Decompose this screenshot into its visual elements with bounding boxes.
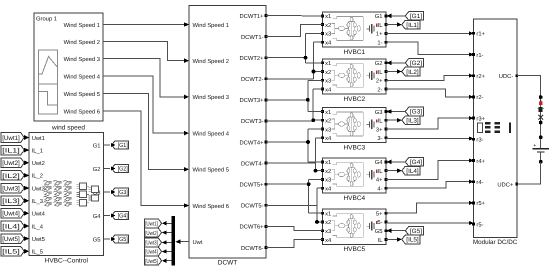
- svg-text:IL_2: IL_2: [32, 173, 43, 180]
- wire DCWT3+ to HVBC2 x3 and HVBC3 x1: [266, 80, 323, 111]
- goto tag [G2]: [112, 164, 129, 172]
- svg-text:DCWT1+: DCWT1+: [240, 13, 265, 20]
- svg-text:2-: 2-: [377, 86, 382, 93]
- svg-text:HVBC2: HVBC2: [343, 96, 365, 103]
- wire demux to [Uwt3]: [162, 240, 172, 244]
- svg-text:[G4]: [G4]: [118, 213, 128, 220]
- svg-text:UDC+: UDC+: [497, 181, 514, 188]
- svg-text:G2: G2: [375, 60, 383, 67]
- svg-text:[Uwt2]: [Uwt2]: [2, 160, 20, 167]
- svg-text:4+: 4+: [376, 178, 383, 184]
- converter block HVBC1: [321, 12, 387, 47]
- svg-text:DCWT6-: DCWT6-: [241, 245, 264, 252]
- svg-text:x2: x2: [325, 168, 331, 175]
- junction on DCWT4+ net: [306, 140, 310, 144]
- wire DCWT2+ to HVBC1 x3 and HVBC2 x1: [266, 33, 323, 62]
- svg-text:4-: 4-: [377, 187, 382, 193]
- svg-text:DCWT1-: DCWT1-: [241, 34, 264, 41]
- wire HVBC1 IL to [IL1]: [386, 22, 402, 27]
- wire DCWT6+ to HVBC5 x3: [266, 226, 323, 230]
- wire demux to [Uwt4]: [162, 249, 172, 253]
- label HVBC5: [343, 246, 365, 253]
- node below DC source: [539, 160, 543, 164]
- svg-text:x2: x2: [325, 219, 331, 226]
- wire DCWT1+ to HVBC1 x1: [266, 15, 323, 17]
- from tag [IL4]: [1, 221, 24, 231]
- wire [Uwt2] to HVBC--Control: [24, 161, 29, 166]
- wire [G2] to HVBC2 gate input: [387, 61, 406, 66]
- svg-text:[G4]: [G4]: [410, 159, 422, 166]
- svg-text:DCWT3-: DCWT3-: [241, 118, 264, 125]
- svg-text:Wind Speed 3: Wind Speed 3: [193, 94, 229, 101]
- from tag [IL3]: [1, 196, 24, 206]
- junction on DCWT3- net: [311, 118, 315, 122]
- goto tag [G3]: [112, 188, 129, 196]
- svg-text:[Uwt5]: [Uwt5]: [2, 236, 20, 243]
- wire DC source to UDC+: [517, 162, 541, 184]
- svg-text:[Uwt3]: [Uwt3]: [145, 240, 158, 247]
- svg-text:DCWT4+: DCWT4+: [240, 139, 265, 146]
- wire demux to [Uwt1]: [162, 221, 172, 225]
- controller icon cluster inside HVBC--Control: [44, 180, 99, 206]
- svg-text:[G2]: [G2]: [410, 60, 422, 67]
- svg-text:r2+: r2+: [476, 73, 485, 80]
- svg-text:5+: 5+: [376, 212, 383, 218]
- svg-text:[G5]: [G5]: [118, 236, 128, 243]
- wire DCWT2- to HVBC1 x4 and HVBC2 x2: [266, 42, 323, 79]
- svg-text:x3: x3: [325, 31, 331, 38]
- wire Wind Speed 2 (wind speed to DCWT): [103, 42, 189, 64]
- svg-text:Wind Speed 2: Wind Speed 2: [64, 39, 100, 46]
- svg-text:1-: 1-: [377, 40, 382, 46]
- svg-text:x2: x2: [325, 22, 331, 29]
- svg-text:G2: G2: [93, 166, 101, 173]
- from tag [Uwt1]: [1, 133, 24, 143]
- from tag [G3] at HVBC3: [405, 107, 423, 116]
- svg-text:x4: x4: [325, 87, 332, 93]
- svg-text:[G5]: [G5]: [410, 228, 422, 235]
- wire [IL4] to HVBC--Control: [24, 224, 29, 229]
- svg-text:x4: x4: [325, 238, 332, 244]
- converter icon inside HVBC4: [331, 162, 377, 186]
- svg-text:Wind Speed 4: Wind Speed 4: [193, 130, 230, 137]
- from tag [Uwt2]: [1, 158, 24, 168]
- wire HVBC2 IL to [IL2]: [386, 69, 402, 74]
- converter block HVBC2: [321, 59, 387, 94]
- svg-text:Wind Speed 1: Wind Speed 1: [193, 22, 229, 29]
- wire DCWT5- to HVBC4 x4 and HVBC5 x2: [266, 188, 323, 222]
- signal builder icon inside wind speed block: [38, 50, 57, 114]
- goto tag [Uwt3]: [145, 238, 162, 247]
- wire [IL1] to HVBC--Control: [24, 148, 29, 153]
- subsystem block wind speed (signal source): [34, 13, 103, 121]
- wire HVBC3 IL to [IL3]: [386, 118, 402, 123]
- svg-text:IL: IL: [378, 23, 384, 29]
- svg-text:r5-: r5-: [476, 222, 483, 228]
- svg-text:[Uwt4]: [Uwt4]: [2, 211, 20, 218]
- wire [Uwt1] to HVBC--Control: [24, 135, 29, 140]
- breaker element on load branch: [538, 107, 544, 112]
- subsystem block HVBC--Control: [29, 133, 103, 256]
- converter icon inside HVBC1: [331, 16, 377, 40]
- wire HVBC4 IL to [IL4]: [386, 168, 402, 173]
- wire [Uwt3] to HVBC--Control: [24, 186, 29, 191]
- svg-text:[IL3]: [IL3]: [406, 118, 419, 125]
- goto tag [IL4] at HVBC4: [402, 166, 420, 175]
- svg-text:5-: 5-: [377, 220, 382, 226]
- svg-text:IL: IL: [378, 169, 384, 175]
- svg-text:IL: IL: [378, 119, 384, 125]
- svg-text:G5: G5: [375, 228, 383, 235]
- wire demux to [Uwt2]: [162, 231, 172, 235]
- wire HVBC5 IL to [IL5]: [386, 237, 402, 242]
- svg-text:[G2]: [G2]: [118, 166, 128, 173]
- node on load branch (top): [539, 95, 543, 99]
- converter icon inside HVBC3: [331, 112, 377, 136]
- label HVBC--Control: [45, 257, 89, 264]
- junction on DCWT3+ net: [306, 98, 310, 102]
- goto tag [Uwt4]: [145, 247, 162, 256]
- svg-text:DCWT5+: DCWT5+: [240, 182, 265, 189]
- svg-text:3+: 3+: [376, 126, 383, 133]
- wire [IL2] to HVBC--Control: [24, 173, 29, 178]
- svg-text:G4: G4: [93, 213, 102, 220]
- converter icon inside HVBC5: [331, 214, 377, 238]
- svg-text:G1: G1: [93, 142, 101, 149]
- svg-text:[Uwt4]: [Uwt4]: [145, 249, 158, 256]
- current measurement (red) on load branch: [539, 100, 543, 105]
- goto tag [Uwt1]: [145, 219, 162, 228]
- svg-text:HVBC5: HVBC5: [343, 246, 365, 253]
- subsystem block DCWT: [189, 6, 267, 258]
- from tag [IL1]: [1, 145, 24, 155]
- wire Wind Speed 1 (wind speed to DCWT): [103, 22, 189, 27]
- junction on DCWT5+ net: [307, 182, 311, 186]
- svg-text:[IL4]: [IL4]: [2, 223, 20, 230]
- svg-text:Group 1: Group 1: [36, 16, 57, 23]
- svg-text:x2: x2: [325, 69, 331, 76]
- wire [Uwt4] to HVBC--Control: [24, 211, 29, 216]
- svg-text:Uwt: Uwt: [193, 240, 203, 246]
- wire [IL5] to HVBC--Control: [24, 249, 29, 254]
- svg-text:IL_4: IL_4: [32, 224, 44, 230]
- svg-text:[IL2]: [IL2]: [2, 173, 20, 180]
- svg-text:x3: x3: [325, 228, 331, 235]
- wire [G4] to HVBC4 gate input: [387, 160, 406, 165]
- svg-text:r3+: r3+: [476, 115, 485, 122]
- wire [G3] to HVBC3 gate input: [387, 109, 406, 114]
- wire UDC- to load branch: [517, 76, 541, 149]
- goto tag [G4]: [112, 211, 129, 219]
- svg-text:IL_5: IL_5: [32, 250, 43, 256]
- wire DCWT4+ to HVBC3 x3 and HVBC4 x1: [266, 129, 323, 162]
- svg-text:Wind Speed 6: Wind Speed 6: [193, 203, 229, 210]
- svg-text:x4: x4: [325, 40, 332, 46]
- svg-text:[G3]: [G3]: [118, 189, 128, 196]
- svg-text:r3-: r3-: [476, 137, 483, 144]
- goto tag [IL1] at HVBC1: [402, 20, 420, 29]
- wire HVBC 4+ to Modular DC/DC r4+: [386, 158, 473, 179]
- wire Wind Speed 3 (wind speed to DCWT): [103, 59, 189, 100]
- svg-text:r4+: r4+: [476, 159, 485, 165]
- series RLC element (asterisk) on load branch: [538, 114, 543, 121]
- svg-text:Wind Speed 6: Wind Speed 6: [64, 108, 100, 115]
- svg-text:HVBC--Control: HVBC--Control: [45, 257, 89, 264]
- from tag [IL5]: [1, 247, 24, 257]
- svg-text:[G1]: [G1]: [410, 13, 422, 20]
- svg-text:DCWT4-: DCWT4-: [241, 160, 264, 167]
- wire HVBC 2+ to Modular DC/DC r2+: [386, 74, 473, 81]
- subsystem block Modular DC/DC: [472, 19, 518, 238]
- wire DCWT6- to HVBC5 x4: [266, 239, 323, 247]
- from tag [Uwt5]: [1, 234, 24, 244]
- svg-text:x4: x4: [325, 136, 332, 142]
- converter block HVBC4: [321, 158, 387, 193]
- svg-text:Wind Speed 3: Wind Speed 3: [64, 56, 100, 63]
- wire HVBC 3- to Modular DC/DC r3-: [386, 136, 473, 140]
- svg-text:IL: IL: [378, 238, 384, 244]
- svg-text:[IL1]: [IL1]: [406, 22, 419, 29]
- svg-text:[IL2]: [IL2]: [406, 69, 419, 76]
- svg-text:Modular DC/DC: Modular DC/DC: [473, 239, 518, 246]
- from tag [Uwt3]: [1, 183, 24, 193]
- goto tag [IL3] at HVBC3: [402, 116, 420, 125]
- svg-text:G3: G3: [375, 109, 383, 116]
- svg-text:x1: x1: [325, 61, 331, 67]
- svg-text:[IL4]: [IL4]: [406, 168, 419, 175]
- from tag [Uwt4]: [1, 209, 24, 219]
- wire DCWT3- to HVBC2 x4 and HVBC3 x2: [266, 89, 323, 121]
- wire Wind Speed 4 (wind speed to DCWT): [103, 76, 189, 135]
- svg-text:Uwt5: Uwt5: [32, 237, 45, 243]
- svg-text:Uwt4: Uwt4: [32, 212, 46, 218]
- svg-text:HVBC4: HVBC4: [343, 195, 365, 202]
- icon cluster inside Modular DC/DC: [477, 122, 511, 133]
- wire [G5] to HVBC5 gate input: [387, 228, 406, 233]
- svg-text:r1-: r1-: [476, 53, 483, 59]
- svg-text:x1: x1: [325, 110, 331, 116]
- svg-text:+: +: [533, 143, 536, 149]
- label HVBC2: [343, 96, 365, 103]
- wire HVBC 3+ to Modular DC/DC r3+: [386, 116, 473, 129]
- svg-text:Wind Speed 5: Wind Speed 5: [193, 167, 229, 174]
- svg-text:Wind Speed 5: Wind Speed 5: [64, 91, 100, 98]
- converter block HVBC5: [321, 209, 387, 244]
- svg-text:G5: G5: [93, 236, 101, 243]
- svg-text:x1: x1: [325, 212, 331, 218]
- svg-text:1+: 1+: [376, 32, 383, 38]
- goto tag [IL5] at HVBC5: [402, 235, 420, 244]
- wire G3 to [G3]: [104, 190, 116, 194]
- junction on DCWT5- net: [315, 220, 319, 224]
- wire G4 to [G4]: [104, 213, 116, 217]
- svg-text:Wind Speed 1: Wind Speed 1: [64, 22, 100, 29]
- label Modular DC/DC: [473, 239, 518, 246]
- svg-text:wind speed: wind speed: [51, 125, 85, 132]
- svg-text:Uwt3: Uwt3: [32, 185, 45, 192]
- wire G1 to [G1]: [104, 143, 116, 147]
- svg-text:3-: 3-: [377, 135, 382, 142]
- svg-text:x3: x3: [325, 177, 331, 184]
- wire HVBC 5+ to Modular DC/DC r5+: [386, 201, 473, 213]
- label HVBC3: [343, 145, 365, 152]
- svg-text:DCWT3+: DCWT3+: [240, 97, 265, 104]
- svg-text:[G1]: [G1]: [118, 142, 128, 149]
- goto tag [Uwt5]: [145, 256, 162, 265]
- goto tag [IL2] at HVBC2: [402, 67, 420, 76]
- svg-text:[IL3]: [IL3]: [2, 198, 20, 205]
- goto tag [G1]: [112, 141, 129, 149]
- wire DCWT1- to HVBC1 x2: [266, 25, 323, 37]
- svg-text:IL: IL: [378, 70, 384, 76]
- DC voltage source (battery): [532, 143, 549, 162]
- wire [Uwt5] to HVBC--Control: [24, 236, 29, 241]
- wire [IL3] to HVBC--Control: [24, 198, 29, 203]
- wire Uwt (DCWT output to demux): [175, 239, 189, 244]
- svg-text:x2: x2: [325, 118, 331, 125]
- svg-text:[Uwt2]: [Uwt2]: [145, 230, 158, 237]
- svg-text:[Uwt1]: [Uwt1]: [145, 221, 158, 228]
- svg-text:DCWT5-: DCWT5-: [241, 203, 264, 210]
- svg-text:[IL5]: [IL5]: [2, 249, 20, 256]
- svg-text:Uwt2: Uwt2: [32, 160, 45, 167]
- svg-text:G1: G1: [375, 13, 383, 20]
- svg-text:[IL1]: [IL1]: [2, 148, 20, 155]
- wire demux to [Uwt5]: [162, 259, 172, 263]
- svg-text:r4-: r4-: [476, 180, 483, 186]
- wire G5 to [G5]: [104, 237, 116, 241]
- converter block HVBC3: [321, 108, 387, 143]
- svg-text:x3: x3: [325, 126, 331, 133]
- wire Wind Speed 5 (wind speed to DCWT): [103, 94, 189, 172]
- from tag [G5] at HVBC5: [405, 226, 423, 235]
- demux (black bar): [172, 216, 175, 266]
- svg-text:[Uwt5]: [Uwt5]: [145, 258, 158, 265]
- svg-text:[IL5]: [IL5]: [406, 237, 419, 244]
- label HVBC4: [343, 195, 365, 202]
- svg-text:DCWT2+: DCWT2+: [240, 55, 265, 62]
- svg-text:x1: x1: [325, 14, 331, 20]
- svg-text:x1: x1: [325, 160, 331, 166]
- svg-text:Wind Speed 2: Wind Speed 2: [193, 58, 229, 65]
- goto tag [Uwt2]: [145, 228, 162, 237]
- svg-text:UDC-: UDC-: [499, 73, 514, 80]
- label wind speed: [51, 125, 85, 132]
- svg-text:Wind Speed 4: Wind Speed 4: [64, 73, 101, 80]
- svg-text:r5+: r5+: [476, 201, 485, 207]
- goto tag [G5]: [112, 235, 129, 243]
- wire DCWT5+ to HVBC4 x3 and HVBC5 x1: [266, 179, 323, 213]
- svg-text:HVBC1: HVBC1: [343, 49, 365, 56]
- svg-text:r1+: r1+: [476, 32, 485, 38]
- svg-text:[Uwt3]: [Uwt3]: [2, 186, 20, 193]
- wire HVBC 1+ to Modular DC/DC r1+: [386, 31, 473, 35]
- svg-text:r2-: r2-: [476, 94, 483, 101]
- wire HVBC 5- to Modular DC/DC r5-: [386, 221, 473, 225]
- svg-text:G4: G4: [375, 159, 384, 166]
- node on load branch (below RLC): [539, 121, 543, 125]
- svg-text:DCWT6+: DCWT6+: [240, 224, 265, 231]
- wire Wind Speed 6 (wind speed to DCWT): [103, 111, 189, 208]
- svg-text:IL_1: IL_1: [32, 148, 43, 154]
- from tag [G4] at HVBC4: [405, 158, 423, 167]
- svg-text:DCWT2-: DCWT2-: [241, 76, 264, 83]
- junction on DCWT4- net: [314, 169, 318, 173]
- wire [G1] to HVBC1 gate input: [387, 14, 406, 19]
- from tag [G2] at HVBC2: [405, 59, 423, 68]
- svg-text:HVBC3: HVBC3: [343, 145, 365, 152]
- svg-text:x3: x3: [325, 78, 331, 85]
- wire HVBC 4- to Modular DC/DC r4-: [386, 180, 473, 189]
- junction on DCWT2+ net: [304, 56, 308, 60]
- from tag [IL2]: [1, 171, 24, 181]
- svg-text:Uwt1: Uwt1: [32, 136, 45, 142]
- label HVBC1: [343, 49, 365, 56]
- svg-text:x4: x4: [325, 187, 332, 193]
- node above DC source: [539, 135, 543, 139]
- converter icon inside HVBC2: [331, 63, 377, 87]
- wire G2 to [G2]: [104, 166, 116, 170]
- svg-text:IL_3: IL_3: [32, 198, 43, 205]
- svg-text:[G3]: [G3]: [410, 109, 422, 116]
- wire HVBC 2- to Modular DC/DC r2-: [386, 89, 473, 99]
- svg-text:2+: 2+: [376, 78, 383, 85]
- from tag [G1] at HVBC1: [405, 12, 423, 21]
- svg-text:[Uwt1]: [Uwt1]: [2, 135, 20, 142]
- junction on DCWT2- net: [312, 70, 316, 74]
- wire DCWT4- to HVBC3 x4 and HVBC4 x2: [266, 138, 323, 171]
- wire HVBC 1- to Modular DC/DC r1-: [386, 42, 473, 57]
- label DCWT: [218, 260, 238, 267]
- svg-text:DCWT: DCWT: [218, 260, 238, 267]
